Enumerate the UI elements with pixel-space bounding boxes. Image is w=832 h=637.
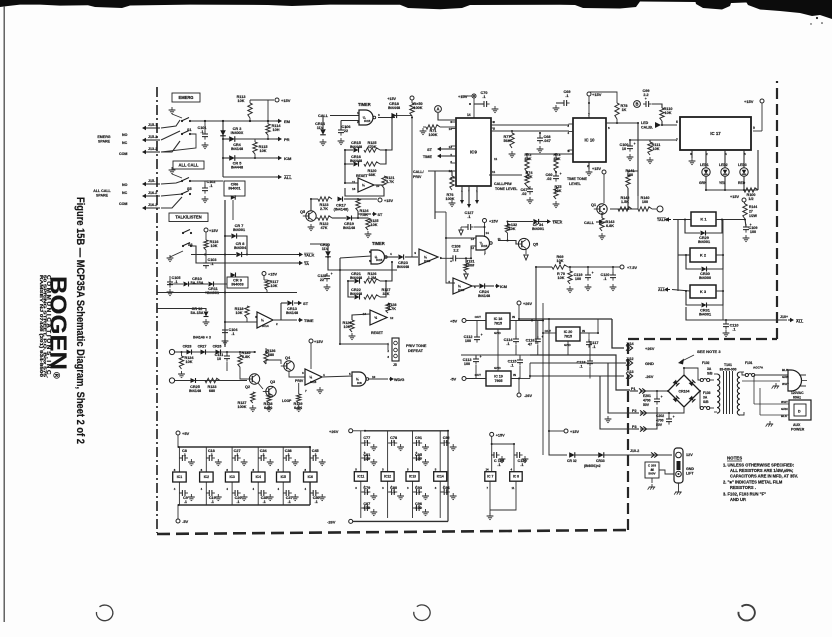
capacitor C34 bbox=[260, 455, 262, 461]
wire EM bus bbox=[222, 121, 224, 177]
circled terminal A bbox=[435, 106, 442, 113]
wire bridge bbox=[640, 390, 668, 392]
svg-text:10K: 10K bbox=[271, 284, 278, 288]
svg-text:J15-: J15- bbox=[148, 179, 156, 183]
svg-text:LEVEL: LEVEL bbox=[569, 182, 582, 186]
svg-text:.1: .1 bbox=[392, 440, 395, 444]
svg-text:IC15: IC15 bbox=[481, 244, 488, 248]
capacitor C18 bbox=[208, 455, 210, 461]
svg-text:RESET: RESET bbox=[371, 331, 384, 335]
wire IC18 in bbox=[510, 320, 543, 322]
resistor R134 bbox=[179, 356, 183, 369]
svg-text:IC4: IC4 bbox=[256, 475, 261, 479]
svg-text:IC16: IC16 bbox=[310, 380, 317, 384]
svg-text:J114: J114 bbox=[626, 342, 634, 346]
IC9 bbox=[456, 118, 491, 186]
wire 26V rail bbox=[519, 318, 612, 320]
svg-text:ICM: ICM bbox=[284, 156, 292, 161]
svg-text:.1: .1 bbox=[288, 500, 291, 504]
svg-text:100#: 100# bbox=[466, 264, 475, 268]
resistor R113 bbox=[248, 103, 252, 118]
resistor R71 bbox=[426, 125, 440, 129]
terminal +5V bbox=[462, 319, 466, 323]
svg-text:IN4448: IN4448 bbox=[350, 292, 362, 296]
capacitor C110 bbox=[723, 323, 729, 325]
svg-text:RED: RED bbox=[738, 181, 746, 185]
capacitor C20 bbox=[234, 490, 236, 496]
svg-text:GND: GND bbox=[686, 467, 694, 471]
svg-text:R144: R144 bbox=[749, 205, 757, 209]
svg-text:LED1: LED1 bbox=[700, 163, 709, 167]
svg-text:EMERG: EMERG bbox=[178, 95, 193, 100]
svg-text:TALK/LISTEN: TALK/LISTEN bbox=[175, 215, 201, 220]
svg-text:CAPACITORS ARE IN MFD, AT 35V.: CAPACITORS ARE IN MFD, AT 35V. bbox=[730, 473, 798, 478]
svg-text:+: + bbox=[634, 142, 636, 146]
diode CR10 bbox=[184, 282, 189, 287]
svg-text:LED3: LED3 bbox=[738, 163, 747, 167]
capacitor C68 bbox=[537, 137, 543, 139]
resistor R129 bbox=[350, 320, 354, 332]
wire TE bbox=[157, 292, 297, 294]
svg-text:IC16: IC16 bbox=[458, 288, 465, 292]
svg-text:S/B: S/B bbox=[703, 400, 709, 404]
svg-text:.1: .1 bbox=[445, 490, 448, 494]
svg-text:GRN: GRN bbox=[782, 375, 789, 379]
svg-text:ALL CALL: ALL CALL bbox=[93, 189, 111, 193]
svg-text:LOOP: LOOP bbox=[282, 399, 292, 403]
svg-text:IN4001: IN4001 bbox=[233, 228, 245, 232]
wire to ALL bbox=[190, 180, 223, 182]
svg-text:+: + bbox=[673, 415, 675, 419]
capacitor C87 bbox=[364, 505, 366, 511]
svg-text:.047: .047 bbox=[543, 139, 550, 143]
wire J5 bbox=[340, 343, 388, 345]
capacitor C77 bbox=[364, 440, 366, 446]
transistor Q2 bbox=[249, 374, 259, 384]
svg-text:6: 6 bbox=[676, 120, 678, 124]
terminal +26V bbox=[517, 301, 521, 305]
svg-text:22: 22 bbox=[320, 278, 324, 282]
svg-text:IN4001: IN4001 bbox=[698, 240, 710, 244]
resistor R140h bbox=[638, 207, 652, 211]
ground 12V strip bbox=[678, 483, 680, 489]
svg-text:47: 47 bbox=[528, 343, 532, 347]
svg-text:1. UNLESS OTHERWISE SPECIFIED: 1. UNLESS OTHERWISE SPECIFIED: bbox=[723, 463, 794, 468]
svg-text:.1: .1 bbox=[315, 500, 318, 504]
svg-text:14: 14 bbox=[486, 231, 490, 235]
diode CR32 bbox=[569, 452, 575, 458]
svg-text:10K: 10K bbox=[344, 325, 351, 329]
terminal +15V IC7 bbox=[490, 432, 494, 436]
capacitor C108 bbox=[452, 255, 454, 261]
svg-text:IN4001: IN4001 bbox=[228, 187, 240, 191]
svg-text:.1: .1 bbox=[592, 345, 595, 349]
svg-text:.1: .1 bbox=[417, 440, 420, 444]
svg-text:.1: .1 bbox=[184, 500, 187, 504]
capacitor C35 bbox=[260, 490, 262, 496]
svg-text:J10+: J10+ bbox=[780, 315, 788, 319]
svg-text:IN4000: IN4000 bbox=[699, 276, 711, 280]
wire aux loop bbox=[753, 375, 755, 404]
terminal -5V bbox=[462, 377, 466, 381]
diode CR22 bbox=[355, 295, 360, 300]
svg-text:1K: 1K bbox=[622, 108, 627, 112]
svg-text:120VAC: 120VAC bbox=[791, 391, 804, 395]
wire column IC 4 bbox=[257, 447, 259, 472]
svg-text:IC14: IC14 bbox=[437, 475, 444, 479]
capacitor C203 bbox=[645, 462, 659, 478]
ground IC7 bbox=[489, 481, 491, 514]
svg-text:OUT: OUT bbox=[475, 315, 482, 319]
zener CR20 bbox=[325, 251, 331, 257]
svg-text:+15V: +15V bbox=[730, 195, 739, 199]
svg-text:IN4148: IN4148 bbox=[231, 147, 243, 151]
IC box IC12 bbox=[381, 472, 394, 482]
svg-text:10K: 10K bbox=[211, 244, 218, 248]
resistor R115 bbox=[253, 142, 257, 154]
IC10 bbox=[573, 118, 606, 162]
svg-text:S1: S1 bbox=[187, 128, 192, 132]
junction dots bbox=[204, 120, 206, 122]
resistor R136 bbox=[264, 352, 268, 364]
svg-text:IN4004: IN4004 bbox=[234, 246, 247, 250]
svg-text:.02: .02 bbox=[546, 177, 551, 181]
terminal +15V reset bbox=[358, 198, 377, 200]
capacitor C50 bbox=[312, 490, 314, 496]
svg-text:TIME TONE: TIME TONE bbox=[567, 177, 588, 181]
resistor R111 bbox=[648, 142, 652, 155]
svg-text:K 3: K 3 bbox=[700, 289, 707, 294]
capacitor C96 bbox=[416, 505, 418, 511]
relay supply bus bbox=[722, 219, 745, 221]
svg-text:3A: 3A bbox=[703, 395, 708, 399]
svg-text:+5V: +5V bbox=[182, 431, 190, 436]
svg-text:F102: F102 bbox=[702, 361, 710, 365]
svg-text:AND UP.: AND UP. bbox=[730, 497, 746, 502]
svg-text:.1: .1 bbox=[467, 215, 470, 219]
svg-text:(IN4148): (IN4148) bbox=[334, 208, 350, 212]
svg-text:IN4001: IN4001 bbox=[699, 313, 711, 317]
resistor R121 bbox=[382, 176, 386, 188]
svg-text:470K: 470K bbox=[367, 145, 376, 149]
ground C203 bbox=[651, 484, 653, 487]
transistor Q3 bbox=[266, 386, 276, 396]
svg-text:IN400X: IN400X bbox=[231, 131, 244, 135]
svg-text:+: + bbox=[592, 271, 594, 275]
svg-text:.1: .1 bbox=[231, 332, 234, 336]
IC10 pin stubs bbox=[569, 123, 574, 125]
svg-text:10H: 10H bbox=[273, 128, 280, 132]
resistor R126 bbox=[364, 279, 380, 283]
op-amp TIME buffer IC14a bbox=[257, 312, 273, 328]
svg-text:10K: 10K bbox=[558, 276, 565, 280]
svg-text:.1: .1 bbox=[314, 453, 317, 457]
svg-text:100: 100 bbox=[465, 339, 471, 343]
connector J10-2 bbox=[651, 452, 654, 457]
svg-text:IC11: IC11 bbox=[357, 475, 364, 479]
LED bus bbox=[706, 189, 758, 191]
svg-text:68K: 68K bbox=[369, 173, 376, 177]
svg-text:PRIV TONE: PRIV TONE bbox=[406, 344, 427, 348]
transistor Q4 bbox=[284, 361, 294, 371]
resistor R144 bbox=[743, 204, 747, 219]
svg-text:ALL RESISTORS ARE 1/4W,±5%;: ALL RESISTORS ARE 1/4W,±5%; bbox=[730, 468, 793, 473]
svg-text:82K: 82K bbox=[554, 157, 561, 161]
svg-text:PRIV: PRIV bbox=[413, 175, 422, 179]
capacitor C60 bbox=[553, 175, 559, 177]
wire IC20 bbox=[543, 332, 556, 334]
capacitor C92 bbox=[443, 440, 445, 446]
svg-text:RESISTORS .: RESISTORS . bbox=[730, 485, 756, 490]
-5V bottom rail bbox=[179, 504, 311, 506]
NAND gate IC8b bbox=[352, 372, 366, 386]
diode CR15 bbox=[354, 148, 359, 153]
IC17 pin stubs bbox=[691, 150, 693, 155]
resistor R137 bbox=[251, 392, 255, 403]
capacitor C19 bbox=[208, 490, 210, 496]
signal arrow ALL bbox=[276, 176, 278, 178]
op-amp reset2 bbox=[370, 310, 387, 325]
svg-text:ALL CALL: ALL CALL bbox=[179, 162, 199, 167]
capacitor C93 bbox=[416, 489, 418, 495]
svg-text:IC13: IC13 bbox=[409, 475, 416, 479]
resistor R130 bbox=[410, 103, 414, 116]
diode CR19 bbox=[347, 216, 352, 221]
main vertical bus bbox=[224, 200, 226, 347]
svg-text:RAMSEY NJ 07446 (201) 934-8500: RAMSEY NJ 07446 (201) 934-8500 bbox=[39, 275, 44, 378]
connector J112 bbox=[626, 360, 629, 365]
diode CR34 bbox=[533, 219, 538, 224]
svg-text:ICM: ICM bbox=[500, 285, 507, 289]
circled terminal L bbox=[657, 206, 663, 212]
svg-text:5A-15A: 5A-15A bbox=[190, 281, 203, 285]
svg-text:OUT: OUT bbox=[475, 373, 482, 377]
svg-text:(IN4001)×2: (IN4001)×2 bbox=[584, 464, 601, 468]
IC box IC 4 bbox=[252, 472, 266, 482]
svg-text:ALL: ALL bbox=[658, 288, 666, 292]
svg-text:AGC¹A: AGC¹A bbox=[753, 366, 764, 370]
svg-text:S/B: S/B bbox=[707, 371, 713, 375]
svg-text:+15V: +15V bbox=[268, 273, 277, 277]
terminal -5V rail bbox=[176, 519, 180, 523]
bus IC9 to IC10 b bbox=[491, 130, 569, 132]
resistor R117 bbox=[265, 280, 269, 290]
svg-text:TIMER: TIMER bbox=[358, 102, 371, 107]
svg-text:CALL: CALL bbox=[584, 221, 595, 225]
connector J5 bbox=[392, 338, 399, 361]
bus IC9 to IC10 a bbox=[491, 124, 569, 126]
signal arrow ICM mid bbox=[485, 285, 494, 287]
svg-text:WHT: WHT bbox=[781, 400, 788, 404]
resistor R141 bbox=[626, 175, 630, 188]
signal arrow TIME bbox=[298, 319, 299, 321]
svg-text:IC 7: IC 7 bbox=[487, 475, 493, 479]
svg-text:100K: 100K bbox=[445, 197, 454, 201]
capacitor C119 bbox=[585, 274, 591, 276]
svg-text:IC8: IC8 bbox=[357, 381, 362, 385]
NAND timer1 IC15a bbox=[359, 110, 373, 125]
wire TA bbox=[191, 246, 297, 263]
svg-text:LED: LED bbox=[641, 121, 649, 125]
connector arrow J16-2a bbox=[146, 195, 160, 197]
svg-text:+: + bbox=[481, 333, 483, 337]
svg-text:BLK: BLK bbox=[782, 368, 789, 372]
svg-text:IC15: IC15 bbox=[364, 119, 371, 123]
wire column IC 1 bbox=[178, 447, 180, 472]
wire P1 feed bbox=[530, 355, 630, 390]
capacitor C117 bbox=[586, 341, 592, 343]
diode CR13 bbox=[287, 300, 292, 305]
svg-text:.1: .1 bbox=[565, 94, 568, 98]
capacitor C81 bbox=[364, 455, 366, 461]
wire to PR bbox=[235, 138, 276, 140]
svg-text:10: 10 bbox=[372, 375, 376, 379]
svg-text:82K: 82K bbox=[525, 157, 532, 161]
svg-text:2. "■" INDICATES METAL FILM: 2. "■" INDICATES METAL FILM bbox=[723, 480, 783, 485]
IC box IC11 bbox=[354, 472, 367, 482]
diode CR31 bbox=[702, 303, 707, 308]
svg-text:NC: NC bbox=[122, 141, 128, 145]
12V terminal strip bbox=[674, 448, 683, 483]
resistor R128 bbox=[386, 303, 390, 313]
svg-text:OUT: OUT bbox=[545, 329, 552, 333]
resistor R125 bbox=[364, 148, 380, 152]
capacitor C116 bbox=[535, 338, 541, 340]
svg-text:.1: .1 bbox=[183, 453, 186, 457]
svg-text:+15V: +15V bbox=[314, 340, 323, 344]
svg-text:IC14: IC14 bbox=[262, 324, 269, 328]
connector arrow J13-2 bbox=[146, 151, 160, 153]
svg-text:E201: E201 bbox=[643, 394, 651, 398]
resistor R100 bbox=[744, 188, 758, 192]
transistor Q6 bbox=[306, 211, 316, 221]
svg-text:10K: 10K bbox=[260, 149, 267, 153]
switch S1 bbox=[181, 120, 183, 122]
resistor R135 bbox=[238, 355, 242, 367]
resistor R127 bbox=[364, 295, 380, 299]
svg-text:.1: .1 bbox=[236, 453, 239, 457]
wire 15V down bbox=[549, 319, 567, 455]
svg-text:.1: .1 bbox=[237, 500, 240, 504]
svg-text:J16-2: J16-2 bbox=[148, 191, 157, 195]
svg-text:P2: P2 bbox=[632, 409, 637, 413]
svg-text:TIME: TIME bbox=[304, 318, 314, 323]
svg-text:IN4148: IN4148 bbox=[286, 311, 298, 315]
resistor R77 bbox=[510, 133, 514, 148]
signal arrow TALK K1 bbox=[539, 221, 546, 223]
svg-text:2.7K: 2.7K bbox=[320, 207, 328, 211]
svg-text:.1: .1 bbox=[365, 440, 368, 444]
IC9 pin stubs bbox=[451, 121, 457, 123]
capacitor C113 bbox=[473, 358, 479, 360]
resistor R69 bbox=[552, 265, 568, 269]
svg-text:10K: 10K bbox=[236, 311, 243, 315]
svg-text:+15V: +15V bbox=[387, 97, 396, 101]
diode CR30 bbox=[702, 267, 707, 272]
svg-text:IC16: IC16 bbox=[424, 259, 431, 263]
resistor R124 bbox=[356, 199, 360, 211]
svg-text:.1: .1 bbox=[482, 95, 485, 99]
svg-text:D: D bbox=[798, 410, 801, 414]
wire TIME out bbox=[273, 319, 297, 321]
svg-text:.1: .1 bbox=[445, 440, 448, 444]
AUX connector bbox=[789, 400, 811, 420]
IC17 gnd pin3 bbox=[691, 150, 693, 158]
wire -26V J113 bbox=[519, 378, 530, 380]
NAND timer2 IC15b bbox=[371, 250, 385, 264]
AC plug bbox=[788, 370, 802, 391]
resistor R120 bbox=[364, 162, 380, 166]
capacitor C79 bbox=[364, 489, 366, 495]
svg-text:1/2W: 1/2W bbox=[749, 214, 758, 218]
capacitor C38 bbox=[285, 455, 287, 461]
svg-text:S5: S5 bbox=[187, 187, 192, 191]
IC7 box bbox=[485, 472, 496, 482]
svg-text:+7.5V: +7.5V bbox=[627, 266, 637, 270]
svg-text:IN: IN bbox=[513, 373, 516, 377]
svg-text:3. F102, F103 RUN "F": 3. F102, F103 RUN "F" bbox=[723, 492, 766, 497]
svg-text:10: 10 bbox=[622, 147, 626, 151]
signal arrow ST timer bbox=[352, 217, 368, 219]
svg-text:IN4448: IN4448 bbox=[350, 159, 362, 163]
svg-text:+15V: +15V bbox=[209, 229, 218, 233]
svg-text:+15V: +15V bbox=[744, 99, 754, 104]
IC10 gnd bbox=[588, 162, 590, 169]
resistor R139 bbox=[297, 394, 301, 403]
connector arrow J15- bbox=[146, 183, 160, 185]
svg-text:.1: .1 bbox=[417, 490, 420, 494]
svg-text:.1: .1 bbox=[497, 463, 500, 467]
capacitor C112 bbox=[474, 336, 480, 338]
svg-text:56K: 56K bbox=[504, 139, 511, 143]
svg-text:F101: F101 bbox=[745, 361, 753, 365]
wire TALK bus bbox=[191, 254, 236, 256]
svg-text:CALIB.: CALIB. bbox=[641, 126, 653, 130]
op-amp reset1 IC bbox=[358, 178, 374, 192]
svg-text:-26V: -26V bbox=[645, 374, 654, 379]
svg-text:.1: .1 bbox=[262, 453, 265, 457]
wire column IC 2 bbox=[205, 447, 207, 472]
wire to ICM bbox=[235, 157, 276, 159]
svg-text:.1: .1 bbox=[506, 342, 509, 346]
svg-text:14: 14 bbox=[486, 468, 490, 472]
svg-text:4700: 4700 bbox=[643, 398, 651, 402]
connector arrow J16-2b bbox=[146, 207, 160, 209]
svg-text:12: 12 bbox=[390, 316, 394, 320]
svg-text:+15V: +15V bbox=[281, 98, 291, 103]
svg-text:IN4003: IN4003 bbox=[231, 283, 243, 287]
svg-text:+15V: +15V bbox=[570, 430, 579, 434]
svg-text:+: + bbox=[541, 335, 543, 339]
svg-text:7: 7 bbox=[588, 113, 590, 117]
svg-text:.1: .1 bbox=[263, 500, 266, 504]
svg-text:10K: 10K bbox=[555, 189, 562, 193]
signal arrow TIME IC9 bbox=[441, 155, 445, 157]
svg-text:100K: 100K bbox=[237, 405, 246, 409]
wire column IC 6 bbox=[309, 447, 311, 472]
svg-text:IN4448: IN4448 bbox=[388, 106, 400, 110]
svg-text:+15V: +15V bbox=[592, 92, 602, 97]
svg-text:ST: ST bbox=[378, 213, 384, 217]
svg-text:CR28: CR28 bbox=[183, 345, 192, 349]
resistor R114 bbox=[266, 124, 270, 135]
wire column IC11 bbox=[360, 434, 362, 472]
svg-text:½: ½ bbox=[261, 318, 264, 322]
resistor R110 bbox=[660, 108, 664, 121]
IC19 7905 bbox=[486, 371, 511, 386]
capacitor C8 bbox=[181, 455, 183, 461]
relay K3 bbox=[690, 285, 716, 298]
